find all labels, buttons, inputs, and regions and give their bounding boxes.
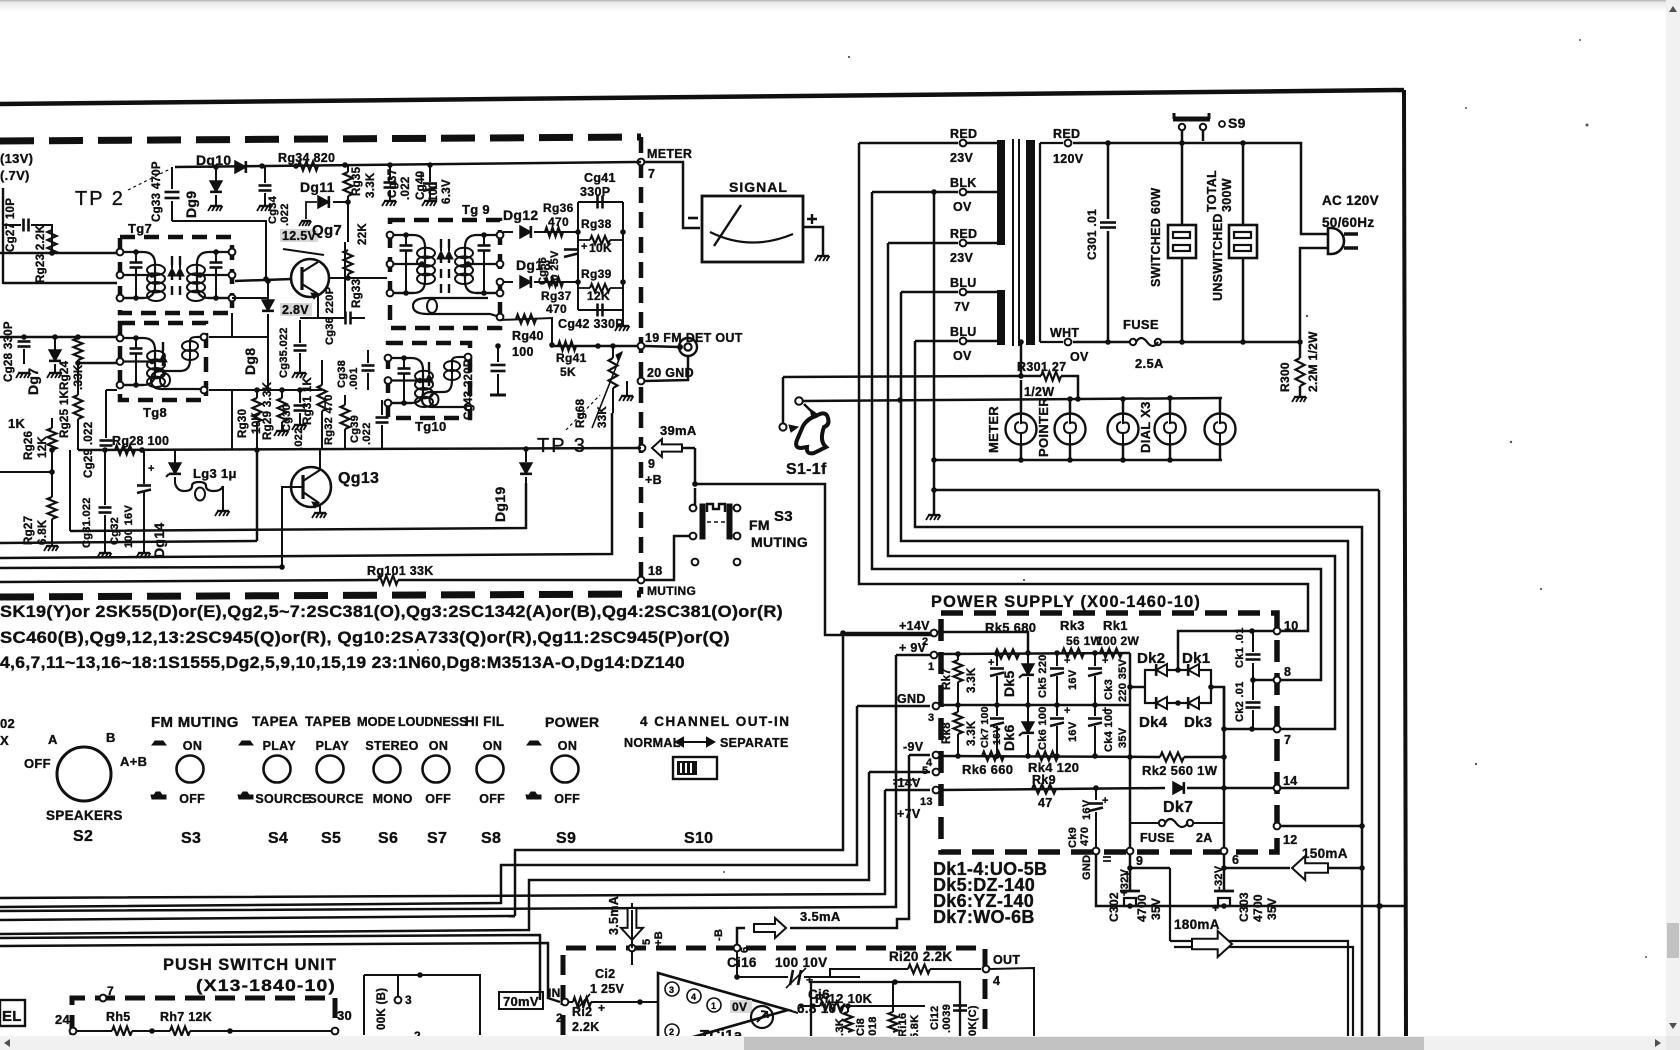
schematic frame top border [0, 90, 1404, 104]
svg-text:180mA: 180mA [1174, 917, 1220, 932]
transistor Qg5 [291, 259, 329, 297]
svg-text:12K: 12K [37, 436, 49, 458]
svg-text:Ci16: Ci16 [727, 955, 757, 970]
svg-text:Tg7: Tg7 [128, 221, 152, 236]
svg-text:SC460(B),Qg9,12,13:2SC945(Q)or: SC460(B),Qg9,12,13:2SC945(Q)or(R), Qg10:… [0, 629, 730, 647]
svg-text:Rg25 1K: Rg25 1K [59, 389, 71, 438]
svg-text:.0039: .0039 [941, 1004, 953, 1033]
ps terminal 6 bottom [1221, 848, 1228, 855]
svg-text:RED: RED [950, 227, 977, 241]
svg-text:Qg13: Qg13 [338, 470, 379, 487]
ps terminal 3 GND [933, 703, 940, 710]
svg-text:100: 100 [512, 345, 534, 359]
transformer terminal RED 120V [1065, 140, 1072, 147]
svg-text:+14V: +14V [899, 619, 930, 633]
horizontal scrollbar track [0, 1036, 1666, 1050]
svg-text:B: B [106, 730, 116, 745]
svg-text:PLAY: PLAY [263, 739, 297, 753]
wire y567 stub [0, 567, 282, 568]
svg-text:Rg39: Rg39 [581, 267, 612, 281]
ps terminal 5 [933, 769, 940, 776]
wire bridge right to pin7 [1211, 687, 1277, 729]
svg-text:Cg42 330P: Cg42 330P [558, 317, 624, 331]
svg-text:OFF: OFF [179, 792, 205, 806]
svg-text:Dg14: Dg14 [151, 523, 167, 558]
signal meter needle [714, 205, 741, 246]
switch S3 pushbutton [177, 756, 204, 783]
wire S3 to 18 [645, 536, 689, 580]
svg-text:S5: S5 [321, 830, 341, 847]
scan specks [417, 39, 1647, 958]
svg-text:Cg33 470P: Cg33 470P [151, 161, 163, 222]
wire left bundle y916 [0, 916, 515, 920]
svg-text:Rg68: Rg68 [575, 398, 587, 428]
opamp TCi1a [658, 973, 788, 1047]
svg-text:3.5mA: 3.5mA [800, 909, 841, 924]
svg-text:STEREO: STEREO [365, 739, 418, 753]
svg-text:1 25V: 1 25V [590, 982, 625, 996]
svg-text:Cg36 220P: Cg36 220P [324, 287, 336, 345]
wire det out row [552, 345, 637, 348]
svg-text:30: 30 [337, 1008, 352, 1023]
resistor Rk4 120 [1036, 752, 1058, 761]
svg-text:GND: GND [1081, 855, 1093, 880]
wire Rk1 to pin9 [1129, 653, 1132, 851]
svg-text:23V: 23V [950, 251, 974, 265]
svg-text:22K: 22K [357, 223, 369, 245]
svg-text:Rg41: Rg41 [556, 351, 587, 365]
svg-text:S6: S6 [378, 830, 398, 847]
svg-text:35V: 35V [1117, 727, 1129, 748]
svg-text:OV: OV [953, 200, 972, 214]
svg-text:.018: .018 [867, 1016, 879, 1039]
svg-text:Ri20 2.2K: Ri20 2.2K [889, 949, 952, 964]
svg-text:Dg19: Dg19 [492, 487, 508, 522]
svg-text:2.8V: 2.8V [282, 303, 309, 317]
svg-text:SPEAKERS: SPEAKERS [46, 808, 123, 823]
svg-text:3: 3 [928, 712, 934, 724]
wire Rg68 line [0, 413, 612, 558]
svg-text:Dg12: Dg12 [503, 207, 538, 223]
svg-text:PLAY: PLAY [316, 739, 350, 753]
svg-text:S3: S3 [774, 508, 793, 525]
ps rail -9V [940, 756, 1160, 757]
svg-text:Rg33: Rg33 [351, 279, 363, 308]
detector sub-box [578, 201, 623, 203]
terminal 7 METER [638, 159, 645, 166]
tone terminal 6 -B [734, 945, 741, 952]
svg-text:EL: EL [2, 1008, 22, 1025]
svg-text:Rg32 470: Rg32 470 [323, 394, 335, 445]
capacitor upper at 997 [996, 654, 998, 666]
ground signal meter [817, 255, 829, 257]
svg-text:Ck5 220: Ck5 220 [1037, 654, 1049, 698]
wire psu right [364, 975, 480, 1035]
wire primary BLU 7V [901, 291, 958, 294]
svg-text:Dk5: Dk5 [1001, 670, 1017, 697]
svg-text:Rg36: Rg36 [543, 201, 574, 215]
svg-text:18: 18 [648, 564, 663, 578]
psu wire [76, 1030, 112, 1032]
vertical scrollbar up arrow [1669, 6, 1677, 12]
svg-text:100 2W: 100 2W [1096, 634, 1140, 648]
wire primary RED top [859, 142, 958, 145]
wire ps -14V exit [885, 789, 930, 792]
diode bridge Dk1 Dk2 Dk3 Dk4 [1130, 686, 1145, 689]
transformer terminal BLK 0V [960, 189, 967, 196]
svg-text:16V: 16V [1067, 721, 1079, 742]
wire AC line bottom [1300, 248, 1329, 342]
transformer secondary winding bar [1026, 140, 1035, 345]
svg-text:Ck3: Ck3 [1103, 679, 1115, 700]
transformer terminal WHT 0V [1065, 339, 1072, 346]
tone amp dashed border [563, 948, 985, 1035]
svg-text:Rk6 660: Rk6 660 [962, 762, 1013, 777]
svg-text:8: 8 [1284, 665, 1291, 679]
svg-text:(.7V): (.7V) [0, 168, 30, 183]
wire switched outlet [1181, 141, 1184, 225]
svg-text:4: 4 [993, 974, 1000, 988]
svg-text:Ck7 100: Ck7 100 [979, 706, 991, 748]
svg-text:Tg 9: Tg 9 [462, 202, 490, 217]
svg-text:+: + [1102, 655, 1109, 667]
svg-text:+B: +B [645, 473, 662, 487]
svg-text:7V: 7V [954, 300, 970, 314]
svg-text:9: 9 [1136, 854, 1143, 868]
svg-text:Rk8: Rk8 [941, 722, 953, 744]
svg-text:+: + [1102, 795, 1109, 807]
wire 3.5mA to minusB [737, 928, 745, 948]
ps rail -14V Dk7 [940, 788, 1165, 790]
svg-text:S7: S7 [427, 830, 447, 847]
svg-text:Dk7: Dk7 [1163, 799, 1193, 816]
svg-text:3.5mA: 3.5mA [607, 896, 621, 935]
svg-text:ON: ON [183, 739, 202, 753]
svg-text:BLK: BLK [950, 176, 977, 190]
wire bus y450 [78, 448, 641, 450]
svg-text:Rg40: Rg40 [512, 329, 544, 343]
svg-text:7: 7 [648, 167, 655, 181]
potentiometer Rg68 33K [609, 358, 618, 388]
transformer Tg9 [390, 220, 500, 328]
switch S5 pushbutton [317, 756, 344, 783]
svg-text:Ci12: Ci12 [929, 1006, 941, 1030]
wire Tg8 bottom bus [209, 389, 322, 391]
svg-text:1: 1 [928, 661, 934, 673]
switch S7 pushbutton [423, 756, 450, 783]
ground lamp bus [933, 460, 936, 514]
vertical scrollbar down arrow [1669, 1023, 1677, 1029]
wire Rg30 area [231, 390, 233, 450]
svg-text:3: 3 [669, 985, 674, 995]
wire primary RED bottom [888, 242, 958, 245]
svg-text:Dg7: Dg7 [25, 368, 41, 395]
svg-text:METER: METER [986, 406, 1001, 453]
svg-text:Ck1 .01: Ck1 .01 [1234, 627, 1246, 668]
transformer terminal BLU 0V [960, 338, 967, 345]
resistor Rk9 47 [1032, 785, 1056, 794]
svg-text:Cg39: Cg39 [349, 415, 361, 443]
ground at 20 GND [626, 381, 628, 395]
svg-text:Ck9: Ck9 [1067, 827, 1079, 848]
svg-text:+ 9V: + 9V [899, 641, 927, 655]
wire secondary vertical [1039, 143, 1041, 342]
svg-text:50/60Hz: 50/60Hz [1322, 215, 1374, 230]
svg-text:Cg38: Cg38 [336, 360, 348, 388]
ps terminal 9 bottom [1127, 848, 1134, 855]
resistor R300 2.2M [1299, 342, 1302, 358]
ps terminal 2 +14V [931, 630, 938, 637]
svg-text:13: 13 [920, 796, 933, 808]
svg-text:3.3K: 3.3K [966, 667, 978, 693]
ps terminal GND bottom [1093, 848, 1100, 855]
lamp bus bottom [934, 459, 1222, 462]
svg-text:Rg31 1K: Rg31 1K [302, 376, 314, 425]
transformer primary terminal RED 23V [960, 140, 967, 147]
svg-text:Rk9: Rk9 [1032, 773, 1056, 787]
terminal 19 FM DET OUT [638, 343, 645, 350]
label 70mV [499, 992, 543, 1009]
svg-text:FM MUTING: FM MUTING [151, 714, 239, 731]
svg-text:Lg3 1μ: Lg3 1μ [193, 466, 237, 481]
wire AC line top [1073, 143, 1329, 234]
svg-text:220 35V: 220 35V [1117, 659, 1129, 702]
svg-text:SIGNAL: SIGNAL [729, 179, 788, 195]
wire top left bus [40, 225, 52, 253]
svg-text:+: + [1212, 901, 1219, 915]
svg-text:150mA: 150mA [1302, 846, 1348, 861]
svg-text:9: 9 [648, 457, 655, 471]
svg-text:FUSE: FUSE [1140, 831, 1175, 845]
tone terminal 5 [629, 945, 636, 952]
svg-text:(X13-1840-10): (X13-1840-10) [196, 976, 336, 995]
led indicator [751, 1006, 773, 1028]
wire unswitched outlet [1242, 141, 1245, 225]
wire muting line Rg101 [0, 580, 378, 582]
wire ps pin5 exit [869, 771, 930, 774]
switch S2 SPEAKERS [57, 747, 111, 801]
svg-text:C301 .01: C301 .01 [1085, 209, 1099, 260]
svg-text:-B: -B [713, 929, 725, 941]
wire primary BLK [872, 191, 958, 194]
svg-text:1K: 1K [8, 416, 26, 431]
svg-text:100 16V: 100 16V [123, 505, 135, 548]
svg-text:Rg24: Rg24 [59, 360, 71, 390]
signal meter minus [688, 217, 698, 220]
fuse 2A [1130, 822, 1160, 824]
wire to Rg30 column [0, 541, 257, 543]
svg-text:Rg28 100: Rg28 100 [112, 434, 169, 448]
wire RED23V-b to pin7 [888, 243, 1335, 729]
svg-text:4 CHANNEL OUT-IN: 4 CHANNEL OUT-IN [640, 714, 791, 729]
transformer core laminations [1012, 139, 1014, 346]
ps terminal 8 [1274, 677, 1281, 684]
wire tone 5 down [631, 910, 633, 948]
svg-text:Ck2 .01: Ck2 .01 [1234, 681, 1246, 722]
svg-text:14: 14 [1283, 774, 1298, 788]
label S9 [1219, 121, 1225, 127]
svg-text:+B: +B [653, 931, 665, 946]
svg-text:X: X [0, 733, 9, 748]
wire base Qg5 from Tg9 [329, 277, 387, 279]
svg-text:Cg56: Cg56 [537, 257, 549, 285]
svg-text:Cg35.022: Cg35.022 [278, 327, 290, 378]
svg-text:AC 120V: AC 120V [1322, 193, 1379, 208]
svg-text:OFF: OFF [479, 792, 505, 806]
ps terminal 7 [1274, 726, 1281, 733]
svg-text:Rk5 680: Rk5 680 [985, 620, 1036, 635]
capacitor Cg30 .022 [294, 404, 307, 407]
svg-text:Ck6 100: Ck6 100 [1037, 706, 1049, 750]
switch S10 slide [673, 757, 717, 779]
wire Dg19 line [70, 483, 526, 531]
svg-text:24: 24 [55, 1012, 71, 1027]
push switch unit dashed border [72, 998, 335, 1035]
svg-text:+: + [1064, 705, 1071, 717]
svg-text:2: 2 [669, 1027, 674, 1037]
svg-text:16V: 16V [1067, 669, 1079, 690]
wire bridge to pin6 [1223, 687, 1226, 851]
svg-text:470: 470 [546, 302, 567, 316]
S1-1f rotor wedge [804, 404, 812, 412]
unswitched outlet [1229, 225, 1257, 258]
wire ps +9V exit [896, 654, 930, 657]
svg-text:Rk1: Rk1 [1103, 618, 1128, 633]
svg-text:Dk7:WO-6B: Dk7:WO-6B [933, 907, 1035, 927]
svg-text:A+B: A+B [120, 754, 147, 769]
capacitor C302 4700 35V [1129, 855, 1132, 890]
capacitor Ck3 220 35V [1094, 653, 1096, 666]
svg-text:1/2W: 1/2W [1024, 385, 1054, 399]
wire subbox to gnd [622, 310, 624, 325]
wire BLU0V to pin12 [915, 341, 1362, 1036]
svg-text:12: 12 [1283, 833, 1298, 847]
fuse 2.5A [1130, 339, 1136, 345]
svg-text:Cg41: Cg41 [584, 171, 616, 185]
svg-text:6.3V: 6.3V [441, 179, 453, 204]
capacitor C303 4700 35V [1223, 855, 1226, 890]
transformer primary winding bar upper [997, 140, 1005, 245]
wire y363 [78, 362, 117, 365]
wire Cg33 to base [172, 221, 266, 279]
tone terminal OUT [983, 966, 990, 973]
lamp DIAL 2 [1169, 398, 1172, 413]
svg-text:Dg8: Dg8 [242, 348, 258, 375]
svg-text:Ck4 100: Ck4 100 [1103, 708, 1115, 752]
label 2.8V [280, 303, 312, 316]
wire S1-1f lamp feed [803, 398, 1222, 401]
wire ps +14V feed [840, 630, 846, 636]
svg-text:33K: 33K [597, 406, 609, 428]
svg-text:Dk1: Dk1 [1182, 650, 1210, 667]
svg-text:Cg32: Cg32 [109, 517, 121, 545]
FM DET OUT jack [679, 338, 697, 356]
wire pin12 stub [1281, 825, 1362, 828]
svg-text:23V: 23V [950, 151, 974, 165]
svg-text:+: + [581, 241, 588, 253]
svg-text:+7V: +7V [897, 807, 921, 821]
svg-text:2.5A: 2.5A [1135, 356, 1164, 371]
svg-text:Rh7 12K: Rh7 12K [160, 1010, 212, 1024]
svg-text:2A: 2A [1196, 831, 1213, 845]
svg-text:4: 4 [691, 992, 696, 1002]
svg-text:UNSWITCHED: UNSWITCHED [1211, 213, 1225, 301]
wire to Tg7 left [0, 252, 117, 255]
svg-text:SOURCE: SOURCE [308, 792, 363, 806]
label 12.5V [280, 229, 318, 242]
svg-text:BLU: BLU [950, 325, 977, 339]
svg-text:S9: S9 [1228, 115, 1246, 131]
svg-text:39mA: 39mA [660, 423, 697, 438]
svg-text:10 25V: 10 25V [549, 250, 561, 287]
svg-text:Rg26: Rg26 [23, 431, 35, 460]
svg-text:Rg37: Rg37 [541, 289, 572, 303]
svg-text:3: 3 [405, 993, 412, 1007]
svg-text:Cg28 330P: Cg28 330P [3, 321, 15, 382]
svg-text:Dk4: Dk4 [1139, 714, 1168, 731]
ps rail GND mid [940, 704, 1130, 707]
svg-text:Dg9: Dg9 [183, 191, 199, 218]
svg-text:+: + [1124, 869, 1131, 881]
svg-text:A: A [48, 732, 58, 747]
svg-text:Rk3: Rk3 [1060, 618, 1085, 633]
zener Dk6 [1027, 705, 1029, 722]
ps terminal 4 -9V [933, 752, 940, 759]
svg-text:.022: .022 [400, 176, 412, 200]
svg-text:OFF: OFF [554, 792, 580, 806]
AC plug [1328, 228, 1344, 254]
svg-text:Dk3: Dk3 [1184, 714, 1212, 731]
svg-text:RED: RED [950, 127, 977, 141]
lamp DIAL 3 [1219, 398, 1222, 413]
svg-text:+: + [988, 657, 995, 669]
wire S1-1f upper to R301 [783, 376, 1021, 377]
svg-text:12K: 12K [587, 289, 610, 303]
resistor Ri2 2.2K [569, 1001, 573, 1003]
transformer Tg10 [388, 343, 470, 418]
lamp bus join R301 [1075, 396, 1081, 402]
transformer primary winding bar lower [997, 290, 1005, 345]
wire ps -9V exit [909, 754, 930, 757]
svg-text:6: 6 [739, 947, 751, 953]
svg-text:POWER: POWER [545, 714, 599, 730]
svg-text:Cg43 220P: Cg43 220P [463, 359, 475, 420]
vertical scrollbar track [1666, 0, 1680, 1036]
wire vertical x1379 [1378, 490, 1381, 1036]
svg-text:Rg101 33K: Rg101 33K [367, 564, 434, 578]
svg-text:7: 7 [1284, 733, 1291, 747]
psu terminal 7 [100, 995, 107, 1002]
svg-text:POINTER: POINTER [1036, 397, 1051, 457]
svg-text:OFF: OFF [425, 792, 451, 806]
wire 450 to 530 [69, 450, 71, 531]
resistor Rk8 3.3K [957, 705, 959, 712]
terminal 18 MUTING [638, 577, 645, 584]
wire +B feed to S3 and power supply [695, 448, 934, 635]
wire BLU7V to pin14 [901, 292, 1348, 788]
svg-text:Rg27: Rg27 [23, 516, 35, 545]
wire 180mA pair [1130, 867, 1170, 870]
resistor Rg29 3.3K [278, 398, 287, 422]
capacitor Ck9 470 16V [1095, 788, 1097, 800]
svg-text:MODE: MODE [357, 714, 396, 729]
wire gnd bottom bus [1096, 855, 1406, 906]
svg-text:.022: .022 [361, 422, 373, 445]
resistor Rg41 5K [558, 342, 576, 351]
svg-text:TP 2: TP 2 [75, 188, 125, 210]
svg-text:Tg10: Tg10 [415, 419, 447, 434]
terminal 9 +B [639, 445, 646, 452]
